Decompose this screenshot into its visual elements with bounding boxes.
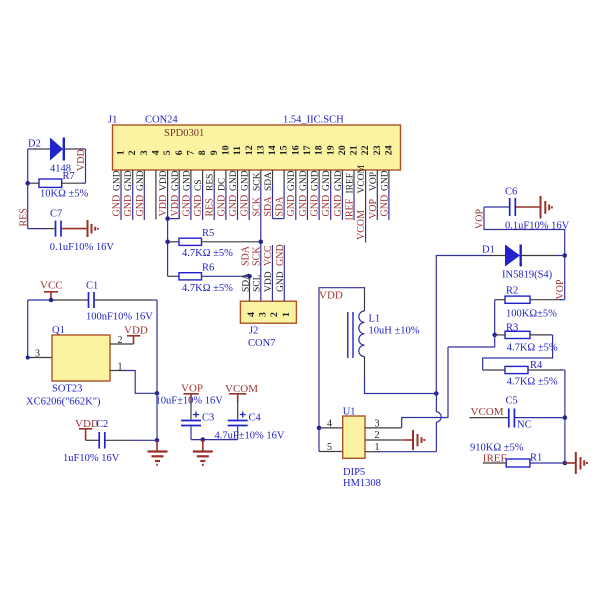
- svg-text:J1: J1: [108, 115, 117, 126]
- U1 pin 1: [365, 451, 380, 453]
- Q1 pin 2 wire to VDD: [110, 343, 134, 345]
- svg-text:GND: GND: [193, 195, 204, 217]
- svg-text:D1: D1: [482, 245, 495, 256]
- J1 pin 16 wire: [295, 170, 297, 185]
- svg-text:C7: C7: [50, 209, 62, 220]
- svg-text:GND: GND: [171, 170, 181, 191]
- J1 pin 12 wire: [248, 170, 250, 185]
- svg-text:SDA: SDA: [241, 273, 251, 292]
- svg-text:SCK: SCK: [252, 246, 263, 266]
- svg-text:C2: C2: [96, 419, 108, 430]
- svg-text:GND: GND: [216, 195, 227, 217]
- svg-text:GND: GND: [298, 195, 309, 217]
- svg-text:3: 3: [35, 349, 40, 360]
- svg-text:L1: L1: [369, 314, 381, 325]
- J2 pin 4 wire: [249, 276, 251, 301]
- J2 pin 2 wire: [271, 245, 273, 301]
- ground (right-facing) at R1: [565, 452, 587, 474]
- wire SDA tie pins 14-15: [273, 218, 285, 220]
- diode D1 IN5819: [482, 245, 565, 281]
- svg-text:10KΩ ±5%: 10KΩ ±5%: [40, 189, 89, 200]
- wire R3 right zigzag to R4 left: [483, 335, 553, 370]
- svg-text:GND: GND: [135, 195, 146, 217]
- svg-text:IREF: IREF: [345, 198, 356, 220]
- svg-text:11: 11: [232, 146, 243, 155]
- svg-text:R1: R1: [530, 453, 542, 464]
- wire VCC row: [28, 299, 55, 301]
- J1 pin 7 wire: [190, 170, 192, 185]
- svg-text:CON7: CON7: [248, 338, 275, 349]
- svg-text:1uF10% 16V: 1uF10% 16V: [63, 453, 120, 464]
- svg-text:R7: R7: [63, 171, 75, 182]
- svg-text:SOT23: SOT23: [52, 384, 82, 395]
- svg-text:14: 14: [267, 145, 278, 155]
- wire right rail x157: [156, 300, 158, 440]
- Q1 pin 1 wire: [110, 370, 126, 372]
- svg-text:22: 22: [360, 145, 371, 155]
- svg-text:NC: NC: [517, 419, 532, 430]
- svg-text:23: 23: [372, 145, 383, 155]
- svg-text:GND: GND: [112, 195, 123, 217]
- svg-text:3: 3: [375, 419, 380, 430]
- power symbol VCC: [40, 280, 63, 301]
- svg-text:VOP: VOP: [181, 383, 203, 395]
- svg-text:SCK: SCK: [252, 172, 262, 191]
- svg-text:24: 24: [384, 145, 395, 155]
- capacitor C5: [470, 396, 568, 431]
- svg-text:SPD0301: SPD0301: [164, 128, 204, 139]
- svg-text:VCOM: VCOM: [471, 406, 504, 418]
- svg-text:10uF±10% 16V: 10uF±10% 16V: [156, 396, 224, 407]
- svg-text:C5: C5: [506, 396, 518, 407]
- svg-text:CS: CS: [194, 179, 204, 191]
- svg-text:GND: GND: [228, 195, 239, 217]
- svg-text:GND: GND: [124, 170, 134, 191]
- U1 pin 3: [365, 427, 402, 429]
- svg-text:GND: GND: [275, 244, 286, 266]
- svg-text:VDD: VDD: [264, 271, 274, 292]
- svg-text:VDD: VDD: [159, 170, 169, 191]
- svg-text:VCOM: VCOM: [357, 164, 367, 193]
- svg-text:SCL: SCL: [253, 274, 263, 292]
- J1 pin 13 wire: [260, 170, 262, 185]
- svg-text:17: 17: [302, 145, 313, 155]
- svg-text:21: 21: [349, 145, 360, 155]
- svg-text:VDD: VDD: [319, 289, 343, 301]
- capacitor C6: [484, 186, 570, 231]
- J2 pin 1 wire: [283, 245, 285, 301]
- J1 pin 14 wire: [272, 170, 274, 185]
- J1 pin 8 wire: [202, 170, 204, 185]
- svg-text:GND: GND: [136, 170, 146, 191]
- svg-text:GND: GND: [240, 195, 251, 217]
- svg-text:R4: R4: [530, 360, 543, 371]
- svg-text:10: 10: [221, 145, 232, 155]
- svg-text:IN5819(S4): IN5819(S4): [502, 270, 553, 281]
- svg-text:C4: C4: [249, 413, 262, 424]
- svg-text:R5: R5: [202, 228, 214, 239]
- svg-text:10uH ±10%: 10uH ±10%: [369, 326, 420, 337]
- resistor R3: [495, 323, 558, 354]
- wire SW vertical up to D1 anode: [436, 256, 492, 394]
- svg-text:2: 2: [127, 150, 138, 155]
- svg-text:GND: GND: [334, 170, 344, 191]
- J1 pin 10 wire: [225, 170, 227, 185]
- svg-text:0.1uF10% 16V: 0.1uF10% 16V: [50, 242, 115, 253]
- svg-text:VCC: VCC: [40, 280, 63, 292]
- svg-text:13: 13: [255, 145, 266, 155]
- capacitor C2: [63, 419, 157, 464]
- power symbol VDD at Q1 pin2: [124, 325, 148, 345]
- resistor R1: [470, 443, 567, 468]
- J1 pin 20 wire: [341, 170, 343, 185]
- svg-text:1.54_IIC.SCH: 1.54_IIC.SCH: [283, 115, 344, 126]
- svg-text:GND: GND: [310, 195, 321, 217]
- wire VDD tie pins 5-6: [168, 215, 180, 219]
- wire C1 right to rail: [95, 299, 153, 301]
- svg-text:2: 2: [375, 430, 380, 441]
- J1 pin 19 wire: [330, 170, 332, 185]
- ground (right-facing) at U1 pin 2: [404, 430, 424, 450]
- capacitor C3 (polarized): [156, 396, 224, 440]
- svg-text:15: 15: [279, 145, 290, 155]
- svg-text:R2: R2: [506, 286, 518, 297]
- svg-text:SDA: SDA: [275, 196, 286, 217]
- J1 pin 22 wire: [365, 170, 367, 185]
- connector J2 CON7: [240, 301, 296, 349]
- svg-text:4: 4: [151, 150, 162, 155]
- svg-text:2: 2: [269, 312, 280, 317]
- svg-text:GND: GND: [182, 170, 192, 191]
- svg-text:VDD: VDD: [170, 195, 181, 217]
- svg-text:6: 6: [174, 150, 185, 155]
- svg-text:C6: C6: [505, 186, 517, 197]
- svg-text:GND: GND: [321, 195, 332, 217]
- svg-text:Q1: Q1: [52, 325, 65, 336]
- resistor R4: [483, 360, 565, 387]
- svg-text:RES: RES: [18, 208, 29, 226]
- svg-text:GND: GND: [380, 170, 390, 191]
- svg-text:DC: DC: [217, 178, 227, 191]
- svg-text:VOP: VOP: [555, 279, 566, 299]
- svg-text:D2: D2: [28, 139, 41, 150]
- svg-text:GND: GND: [123, 195, 134, 217]
- power symbol VDD at C2: [75, 418, 99, 441]
- inductor L1: [348, 311, 420, 358]
- svg-text:GND: GND: [322, 170, 332, 191]
- J1 pin 11 wire: [237, 170, 239, 185]
- svg-text:GND: GND: [287, 170, 297, 191]
- wire right rail R4 to ground: [564, 370, 566, 463]
- svg-text:20: 20: [337, 145, 348, 155]
- svg-text:100KΩ±5%: 100KΩ±5%: [506, 309, 557, 320]
- svg-text:GND: GND: [379, 195, 390, 217]
- capacitor C4 (polarized): [215, 412, 285, 442]
- svg-text:3: 3: [139, 150, 150, 155]
- svg-text:5: 5: [162, 150, 173, 155]
- J1 pin 9 wire: [213, 170, 215, 185]
- svg-text:VOP: VOP: [368, 199, 379, 219]
- J1 pin 17 wire: [306, 170, 308, 185]
- svg-text:RES: RES: [206, 174, 216, 191]
- svg-text:U1: U1: [343, 407, 356, 418]
- wire SW vertical with crossover hop down to U1 pin 1: [436, 394, 441, 452]
- svg-text:HM1308: HM1308: [343, 478, 381, 489]
- J1 pin 1 wire: [120, 170, 122, 185]
- ground below C3/C4: [193, 440, 213, 465]
- power symbol VCOM at C4: [225, 383, 258, 420]
- J1 pin 3 wire: [143, 170, 145, 185]
- svg-text:GND: GND: [333, 195, 344, 217]
- J1 pin 23 wire: [376, 170, 378, 185]
- J1 pin 4 wire: [155, 170, 157, 220]
- svg-text:GND: GND: [241, 170, 251, 191]
- svg-text:CON24: CON24: [145, 115, 178, 126]
- svg-text:IREF: IREF: [346, 173, 356, 194]
- connector J1 CON24 SPD0301: [108, 115, 401, 171]
- wire VCC left rail down to Q1 pin3: [27, 300, 29, 358]
- svg-text:VOP: VOP: [369, 172, 379, 191]
- ground (right-facing) at C6: [516, 196, 552, 219]
- J1 pin 15 wire: [283, 170, 285, 185]
- svg-text:4.7KΩ ±5%: 4.7KΩ ±5%: [182, 283, 233, 294]
- wire R2 left down to R3 left: [494, 300, 496, 335]
- IC U1 HM1308: [343, 407, 381, 490]
- wire FB link from R2/R3 node: [448, 335, 495, 347]
- J1 pin 2 wire: [132, 170, 134, 185]
- svg-text:GND: GND: [286, 195, 297, 217]
- svg-text:RES: RES: [205, 198, 216, 216]
- J1 pin 6 wire: [178, 170, 180, 185]
- svg-text:VDD: VDD: [124, 325, 148, 337]
- svg-text:VCC: VCC: [263, 245, 274, 266]
- diode D2 4148: [28, 138, 86, 175]
- J1 pin 18 wire: [318, 170, 320, 185]
- svg-text:4.7KΩ ±5%: 4.7KΩ ±5%: [507, 342, 558, 353]
- J1 pin 5 wire: [167, 170, 169, 185]
- svg-text:XC6206("662K"): XC6206("662K"): [26, 397, 101, 408]
- svg-text:4.7KΩ ±5%: 4.7KΩ ±5%: [507, 376, 558, 387]
- svg-text:5: 5: [327, 442, 332, 453]
- svg-text:16: 16: [290, 145, 301, 155]
- power symbol VOP at C3: [181, 383, 203, 420]
- svg-text:R3: R3: [506, 323, 518, 334]
- svg-text:C3: C3: [202, 413, 214, 424]
- J1 pin 21 wire: [353, 170, 355, 185]
- svg-text:SCK: SCK: [251, 196, 262, 216]
- svg-text:GND: GND: [229, 170, 239, 191]
- svg-text:8: 8: [197, 150, 208, 155]
- ground (right-facing) at C7: [62, 220, 98, 237]
- svg-text:7: 7: [186, 150, 197, 155]
- U1 pin 5: [319, 451, 343, 453]
- svg-text:SDA: SDA: [240, 245, 251, 266]
- capacitor C1: [86, 281, 153, 323]
- wire C3-C4 bottom link: [191, 439, 238, 441]
- wire left rail RES net: [27, 149, 29, 229]
- resistor R5: [165, 228, 263, 259]
- svg-text:100nF10% 16V: 100nF10% 16V: [86, 312, 153, 323]
- svg-text:9: 9: [209, 150, 220, 155]
- resistor R6: [168, 262, 252, 294]
- svg-text:J2: J2: [249, 326, 258, 337]
- wire L1 bottom to SW node: [364, 357, 366, 378]
- svg-text:VCOM: VCOM: [356, 210, 367, 240]
- svg-text:GND: GND: [311, 170, 321, 191]
- svg-text:R6: R6: [202, 262, 214, 273]
- svg-text:GND: GND: [181, 195, 192, 217]
- svg-text:GND: GND: [299, 170, 309, 191]
- wire VDD rail to U1: [319, 288, 365, 452]
- U1 pin 4: [319, 427, 343, 429]
- svg-text:18: 18: [314, 145, 325, 155]
- svg-text:VDD: VDD: [158, 195, 169, 217]
- svg-text:SDA: SDA: [264, 172, 274, 191]
- svg-text:4: 4: [246, 312, 257, 317]
- U1 pin 2: [365, 439, 404, 441]
- svg-text:SDA: SDA: [263, 196, 274, 217]
- svg-text:4: 4: [327, 419, 332, 430]
- resistor R2: [495, 286, 565, 320]
- svg-text:GND: GND: [113, 170, 123, 191]
- svg-text:1: 1: [116, 150, 127, 155]
- wire VOP: C6 left down and over to D1 rail: [484, 207, 565, 300]
- svg-text:4.7KΩ ±5%: 4.7KΩ ±5%: [182, 248, 233, 259]
- wire D2 cathode down to R7: [85, 149, 87, 183]
- svg-text:3: 3: [257, 312, 268, 317]
- svg-text:12: 12: [244, 145, 255, 155]
- regulator Q1 XC6206: [26, 325, 123, 408]
- J1 pin 24 wire: [388, 170, 390, 185]
- resistor R7: [30, 171, 89, 200]
- svg-text:C1: C1: [86, 281, 98, 292]
- svg-text:GND: GND: [276, 271, 286, 292]
- ground below rail x157: [148, 440, 168, 465]
- svg-text:19: 19: [325, 145, 336, 155]
- capacitor C7: [28, 209, 115, 253]
- svg-text:DIP5: DIP5: [343, 467, 365, 478]
- svg-text:1: 1: [281, 312, 292, 317]
